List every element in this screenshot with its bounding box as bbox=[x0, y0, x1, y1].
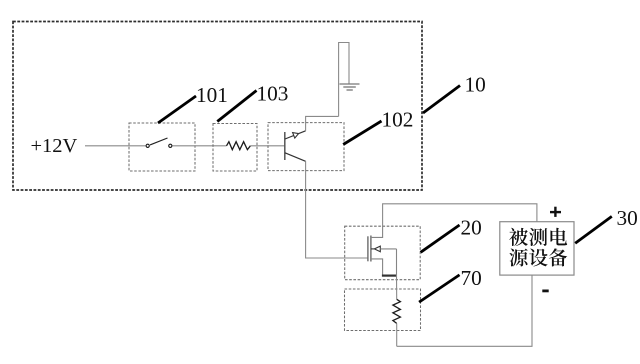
wire drain to top rail bbox=[383, 204, 537, 226]
wire mosfet to resistor 70 bbox=[396, 275, 398, 299]
label 103 leader bbox=[217, 91, 256, 122]
mosfet Q20 channel bar bbox=[370, 236, 372, 262]
node + terminal bbox=[550, 211, 561, 213]
transistor Q102 collector branch bbox=[285, 153, 306, 162]
wire collector down to gate bbox=[306, 161, 368, 258]
label 102 leader bbox=[343, 121, 381, 145]
resistor R103 zigzag bbox=[227, 142, 251, 150]
wire body down bbox=[396, 249, 398, 276]
wire box30 down to bottom rail bbox=[397, 275, 532, 347]
resistor 70 dashed box bbox=[345, 289, 421, 331]
wire emitter up and over bbox=[306, 116, 339, 130]
svg-text:103: 103 bbox=[257, 82, 289, 106]
wire resistor to transistor base bbox=[250, 145, 284, 147]
svg-text:102: 102 bbox=[382, 107, 414, 131]
switch 101 contacts and lever bbox=[146, 144, 149, 147]
wire switch to resistor 103 bbox=[173, 145, 227, 147]
transistor Q102 emitter branch with arrow bbox=[285, 131, 306, 139]
mosfet Q20 source-body tie bar bbox=[382, 275, 397, 277]
resistor 103 dashed box bbox=[213, 124, 257, 172]
box 30 device under test bbox=[500, 222, 574, 275]
mosfet 20 dashed box bbox=[345, 226, 421, 280]
mosfet Q20 body arrow bbox=[371, 248, 375, 250]
wire up to ground loop bbox=[339, 43, 349, 117]
wire resistor 70 to bottom rail bbox=[396, 323, 398, 346]
mosfet Q20 gate bar bbox=[367, 236, 369, 261]
text 被测电源设备 bbox=[509, 228, 567, 267]
label 101 leader bbox=[158, 96, 196, 123]
transistor Q102 base bar bbox=[284, 132, 286, 160]
wire +12V to switch bbox=[85, 145, 146, 147]
box 10 (outer dashed enclosure) bbox=[13, 22, 422, 191]
svg-text:10: 10 bbox=[465, 73, 486, 97]
label 30 leader bbox=[575, 216, 612, 243]
switch S 101 dashed box bbox=[129, 123, 195, 171]
svg-text:70: 70 bbox=[461, 266, 482, 290]
label 70 leader bbox=[419, 275, 459, 302]
ground bbox=[340, 83, 360, 85]
label 20 leader bbox=[421, 225, 460, 252]
svg-text:30: 30 bbox=[617, 206, 638, 230]
transistor Q 102 dashed box bbox=[268, 123, 344, 171]
svg-text:101: 101 bbox=[196, 83, 228, 107]
svg-text:+12V: +12V bbox=[31, 135, 78, 157]
svg-text:20: 20 bbox=[461, 216, 482, 240]
label 10 leader bbox=[423, 86, 460, 114]
mosfet Q20 source stub bbox=[371, 259, 383, 276]
resistor R70 zigzag bbox=[393, 299, 401, 323]
mosfet Q20 drain stub bbox=[371, 226, 383, 237]
node - terminal bbox=[542, 289, 548, 292]
